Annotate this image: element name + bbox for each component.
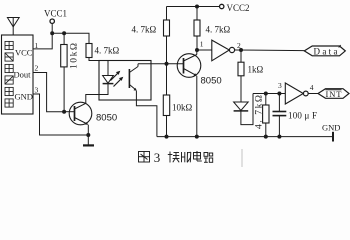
junction dot C1 top (277, 92, 281, 96)
wire pin1 VCC to rail (33, 33, 52, 49)
antenna (7, 18, 19, 36)
svg-text:100 μ F: 100 μ F (288, 110, 317, 120)
wire opto emitter to ground rail (136, 91, 157, 137)
svg-text:4. 7kΩ: 4. 7kΩ (255, 95, 265, 129)
transistor Q2 8050 (167, 50, 201, 137)
optocoupler coupling arrows (111, 71, 124, 87)
ground rail (157, 123, 341, 142)
wire node to R5 top (166, 64, 168, 95)
optocoupler LED (103, 76, 114, 84)
junction dot Q2 emitter rail (195, 135, 199, 139)
svg-text:Data: Data (314, 46, 338, 56)
svg-text:10kΩ: 10kΩ (70, 43, 80, 69)
svg-text:3: 3 (154, 150, 161, 165)
svg-text:VCC2: VCC2 (227, 3, 250, 13)
resistor R2 4.7kΩ (86, 44, 92, 58)
svg-text:4. 7kΩ: 4. 7kΩ (206, 25, 231, 35)
module label 无线接收模块 (vertical) (5, 41, 13, 107)
transistor Q1 8050 (64, 102, 92, 135)
junction dot A (50, 31, 54, 35)
wire inverter U3B to INT flag (308, 93, 318, 95)
VCC2 terminal (220, 3, 250, 13)
wire LED cathode to Q1 collector (86, 84, 108, 104)
scan artifact line (241, 149, 243, 167)
svg-text:Dout: Dout (14, 69, 32, 79)
VCC2 rail wire (167, 6, 220, 8)
wire R5 bottom to rail (166, 116, 168, 137)
svg-text:8050: 8050 (201, 76, 222, 87)
junction dot R8 top (264, 92, 268, 96)
svg-text:1kΩ: 1kΩ (248, 65, 264, 75)
wire R2 bottom to LED anode (89, 58, 108, 76)
wire VCC1 stem (51, 23, 53, 33)
VCC1 terminal (44, 9, 67, 24)
svg-text:1: 1 (200, 40, 204, 49)
wire rail to R4 (196, 7, 198, 21)
inverter U3A (212, 40, 235, 61)
Data flag (304, 45, 345, 56)
svg-text:4. 7kΩ: 4. 7kΩ (132, 25, 157, 35)
resistor R3 4.7kΩ (164, 20, 170, 36)
wire node3 to R8 (265, 94, 267, 106)
svg-text:4. 7kΩ: 4. 7kΩ (95, 46, 120, 56)
node 3 wire (253, 93, 285, 95)
wire node 2 to R7 (240, 50, 242, 62)
wire R8 bottom to rail (265, 123, 267, 137)
wire diode cathode to node 3 (241, 94, 253, 125)
node 1 (195, 40, 204, 53)
caption 图 3 接收电路 (139, 150, 213, 165)
wire node 1 to inverter input (197, 49, 212, 51)
diode D1 (234, 102, 249, 111)
resistor R5 10kΩ (163, 95, 169, 116)
junction dot R8 rail (264, 135, 268, 139)
optocoupler U2 box (99, 61, 151, 101)
junction dot emitter Q1 (86, 133, 90, 137)
svg-text:VCC1: VCC1 (44, 9, 67, 19)
wire Dout to Q1 base node (33, 73, 64, 112)
svg-text:4: 4 (310, 83, 314, 92)
wire R3 bottom to node (166, 36, 168, 64)
junction dot B (62, 31, 66, 35)
resistor R7 1kΩ (238, 62, 244, 76)
svg-text:GND: GND (15, 91, 33, 101)
optocoupler phototransistor (129, 64, 138, 91)
junction dot base Q1 (62, 110, 66, 114)
wireless receiver module U1 (2, 35, 34, 114)
INT flag (318, 89, 349, 99)
svg-text:10kΩ: 10kΩ (172, 103, 193, 113)
wire opto collector to node (138, 63, 167, 65)
wire top rail VCC1 to R2 (52, 33, 89, 43)
junction dot C1 rail (277, 135, 281, 139)
capacitor C1 100uF (273, 94, 287, 137)
resistor R8 4.7kΩ (263, 105, 269, 123)
junction dot VCC2 rail (195, 5, 199, 9)
wire R4 bottom to node 1 (196, 36, 198, 50)
wire inverter output to Data flag (235, 49, 305, 52)
svg-text:3: 3 (35, 86, 39, 95)
wire rail to R3 (166, 7, 168, 21)
svg-text:2: 2 (35, 64, 39, 73)
inverter U3B (285, 83, 308, 104)
node 2 (237, 41, 243, 52)
wire R1 bottom to base node (63, 67, 65, 112)
resistor R4 4.7kΩ (194, 20, 200, 36)
junction dot node base Q2 (165, 62, 169, 66)
svg-text:GND: GND (322, 123, 340, 133)
wire R7 bottom to diode anode (240, 76, 242, 102)
svg-text:INT: INT (326, 89, 343, 99)
resistor R1 10kΩ (61, 45, 67, 67)
ground symbol (83, 135, 94, 145)
wire module GND to ground (33, 94, 88, 135)
junction dot R5 rail (165, 135, 169, 139)
wire rail to R1 top (63, 33, 65, 44)
svg-text:3: 3 (278, 81, 282, 90)
svg-text:VCC: VCC (15, 47, 33, 57)
svg-text:2: 2 (237, 41, 241, 50)
svg-text:8050: 8050 (96, 113, 117, 124)
